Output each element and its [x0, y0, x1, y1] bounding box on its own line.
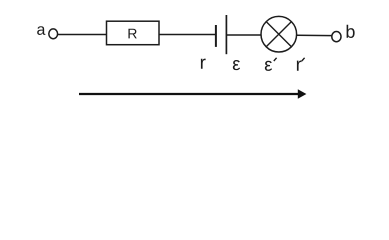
- current direction arrow shaft: [79, 93, 299, 95]
- lamp emf label epsilon-prime: [265, 61, 272, 71]
- node b label: [347, 25, 355, 38]
- internal resistance label r: [201, 59, 206, 69]
- prime tick of r-prime: [302, 58, 305, 61]
- lamp resistance label r-prime: [297, 60, 302, 70]
- wire from battery to lamp: [227, 34, 261, 36]
- prime tick of epsilon-prime: [274, 58, 277, 61]
- battery short plate (negative): [215, 25, 217, 47]
- emf label epsilon: [233, 60, 240, 70]
- terminal a: [49, 29, 58, 39]
- terminal b: [332, 31, 341, 41]
- lamp X diagonal 2: [266, 22, 291, 47]
- current direction arrow head: [298, 89, 307, 99]
- resistor R1 value label: [128, 29, 136, 39]
- lamp circle: [261, 16, 297, 52]
- node a label: [37, 26, 45, 35]
- wire from a to resistor: [58, 34, 107, 36]
- battery long plate (positive): [225, 15, 227, 54]
- wire from lamp to b: [297, 34, 332, 36]
- wire from resistor to battery: [159, 34, 216, 36]
- lamp X diagonal 1: [266, 22, 291, 47]
- resistor R1 body: [107, 21, 160, 45]
